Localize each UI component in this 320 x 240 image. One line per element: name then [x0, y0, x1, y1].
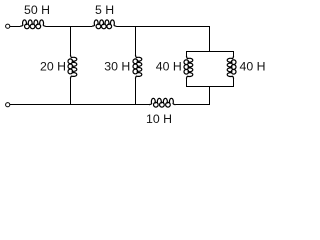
wire branch: L3 bottom to bottom rail node [70, 78, 72, 104]
terminal T1 (top input) [6, 24, 10, 28]
wire bottom rail: L7 to bottom feed corner [175, 104, 210, 106]
svg-text:20 H: 20 H [40, 60, 66, 74]
svg-text:40 H: 40 H [240, 60, 266, 74]
wire feed: bottom bus down to bottom rail [209, 87, 211, 105]
inductor L2 5 H [92, 20, 117, 29]
terminal T2 (bottom input) [6, 103, 10, 107]
inductor L6 40 H (right branch, mirrored) [227, 56, 236, 79]
wire parallel-section top bus [186, 51, 234, 53]
inductor L5 40 H (left branch) [184, 56, 193, 79]
svg-text:10 H: 10 H [146, 112, 172, 126]
svg-text:40 H: 40 H [156, 60, 182, 74]
wire feed: top rail corner down to parallel-section top node [209, 27, 211, 52]
svg-text:5 H: 5 H [95, 3, 114, 17]
wire stub: top bus down to inductor L6 [233, 51, 235, 56]
svg-text:50 H: 50 H [24, 3, 50, 17]
wire bottom rail: terminal T2 to inductor L7 [10, 104, 149, 106]
inductor L7 10 H [149, 98, 175, 107]
wire stub: top bus down to inductor L5 [186, 51, 188, 56]
wire top rail: L2 to top-right corner [116, 26, 210, 28]
svg-text:30 H: 30 H [104, 60, 130, 74]
wire branch: L4 bottom to bottom rail node [135, 78, 137, 104]
wire top rail: L1 to L2 through node at 20 H branch [45, 26, 92, 28]
wire top rail: terminal T1 to inductor L1 [10, 26, 20, 28]
inductor L3 20 H [68, 55, 77, 79]
wire parallel-section bottom bus [186, 86, 234, 88]
wire stub: L6 bottom to bottom bus [233, 78, 235, 87]
wire branch: top rail node down to inductor L4 [135, 26, 137, 55]
inductor L4 30 H [133, 55, 142, 79]
inductor L1 50 H [20, 20, 45, 29]
wire stub: L5 bottom to bottom bus [186, 78, 188, 87]
wire branch: top rail node down to inductor L3 [70, 26, 72, 55]
